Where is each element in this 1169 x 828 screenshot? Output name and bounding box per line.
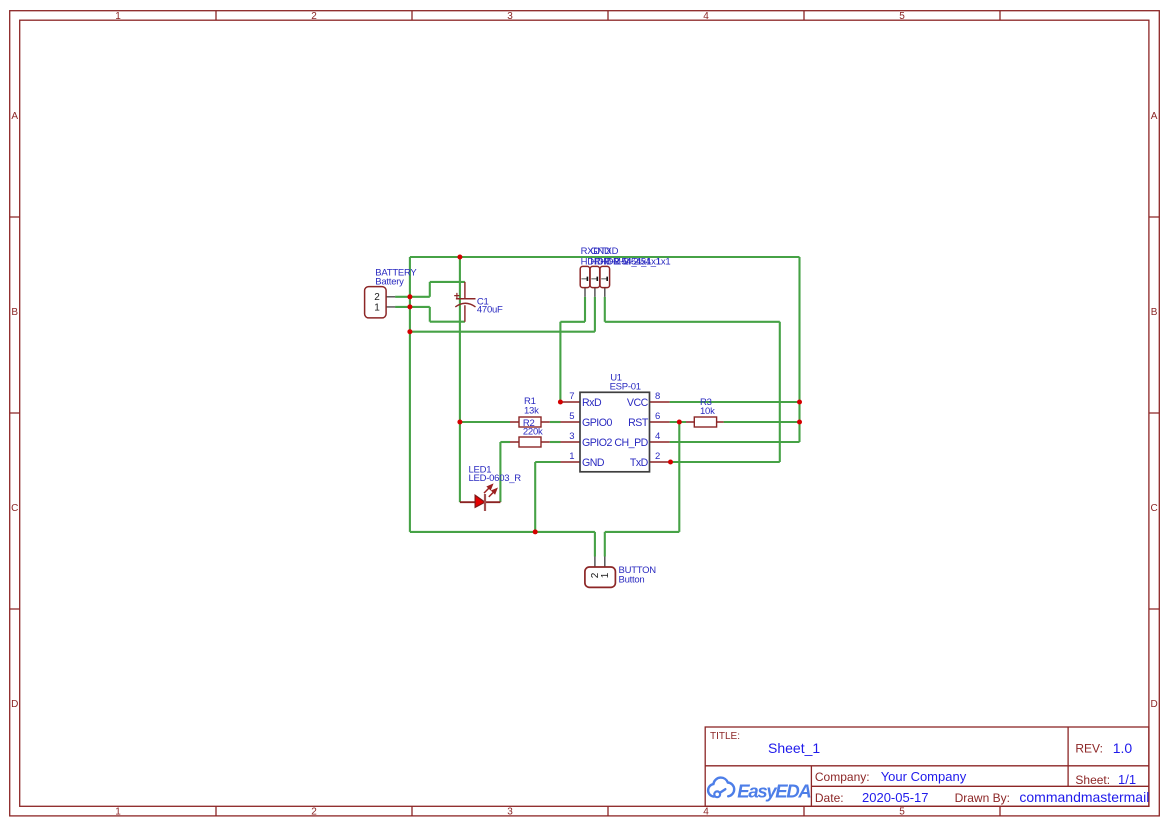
svg-text:GND: GND xyxy=(582,457,605,469)
svg-text:470uF: 470uF xyxy=(477,305,503,316)
svg-text:1: 1 xyxy=(115,807,121,818)
svg-text:RxD: RxD xyxy=(582,397,602,409)
svg-text:Battery: Battery xyxy=(375,277,404,288)
svg-text:2: 2 xyxy=(311,807,317,818)
svg-text:2: 2 xyxy=(655,451,660,462)
svg-text:VCC: VCC xyxy=(627,397,649,409)
svg-text:3: 3 xyxy=(507,11,513,22)
svg-text:A: A xyxy=(1151,111,1158,122)
svg-text:commandmastermail: commandmastermail xyxy=(1019,789,1149,805)
svg-text:Sheet:: Sheet: xyxy=(1075,773,1110,787)
svg-text:D: D xyxy=(11,699,18,710)
svg-text:10k: 10k xyxy=(700,406,715,417)
svg-text:1: 1 xyxy=(115,11,121,22)
svg-text:C: C xyxy=(11,503,18,514)
svg-text:C: C xyxy=(1150,503,1157,514)
svg-text:Sheet_1: Sheet_1 xyxy=(768,740,820,756)
svg-text:13k: 13k xyxy=(524,405,539,416)
svg-text:7: 7 xyxy=(569,391,574,402)
svg-text:ESP-01: ESP-01 xyxy=(610,381,641,392)
svg-text:2: 2 xyxy=(311,11,317,22)
svg-text:TxD: TxD xyxy=(630,457,649,469)
svg-text:4: 4 xyxy=(703,11,709,22)
svg-text:1: 1 xyxy=(569,451,574,462)
svg-text:4: 4 xyxy=(703,807,709,818)
svg-text:1: 1 xyxy=(374,302,380,313)
svg-text:Company:: Company: xyxy=(815,770,870,784)
svg-text:2020-05-17: 2020-05-17 xyxy=(862,790,929,805)
svg-text:B: B xyxy=(1151,307,1158,318)
svg-text:RST: RST xyxy=(628,417,649,429)
svg-text:1/1: 1/1 xyxy=(1118,772,1136,787)
svg-text:GPIO2: GPIO2 xyxy=(582,437,612,449)
svg-text:5: 5 xyxy=(569,411,574,422)
svg-text:Button: Button xyxy=(619,574,645,585)
svg-text:REV:: REV: xyxy=(1075,741,1103,755)
svg-text:3: 3 xyxy=(569,431,574,442)
svg-text:1: 1 xyxy=(600,572,611,578)
svg-text:5: 5 xyxy=(899,807,905,818)
svg-text:Drawn By:: Drawn By: xyxy=(955,791,1010,805)
svg-text:B: B xyxy=(11,307,18,318)
svg-text:4: 4 xyxy=(655,431,660,442)
svg-text:D: D xyxy=(1150,699,1157,710)
svg-text:LED-0603_R: LED-0603_R xyxy=(469,473,522,484)
svg-text:TITLE:: TITLE: xyxy=(710,731,740,742)
svg-text:8: 8 xyxy=(655,391,660,402)
svg-text:Date:: Date: xyxy=(815,791,844,805)
svg-text:A: A xyxy=(11,111,18,122)
svg-text:3: 3 xyxy=(507,807,513,818)
svg-text:1.0: 1.0 xyxy=(1113,740,1133,756)
svg-text:EasyEDA: EasyEDA xyxy=(737,781,811,802)
svg-text:HDR-M-2.54_1x1: HDR-M-2.54_1x1 xyxy=(600,256,670,267)
svg-text:CH_PD: CH_PD xyxy=(614,437,648,449)
svg-text:GPIO0: GPIO0 xyxy=(582,417,612,429)
svg-text:6: 6 xyxy=(655,411,660,422)
svg-text:220k: 220k xyxy=(523,427,543,438)
svg-text:Your Company: Your Company xyxy=(881,769,967,784)
svg-text:5: 5 xyxy=(899,11,905,22)
